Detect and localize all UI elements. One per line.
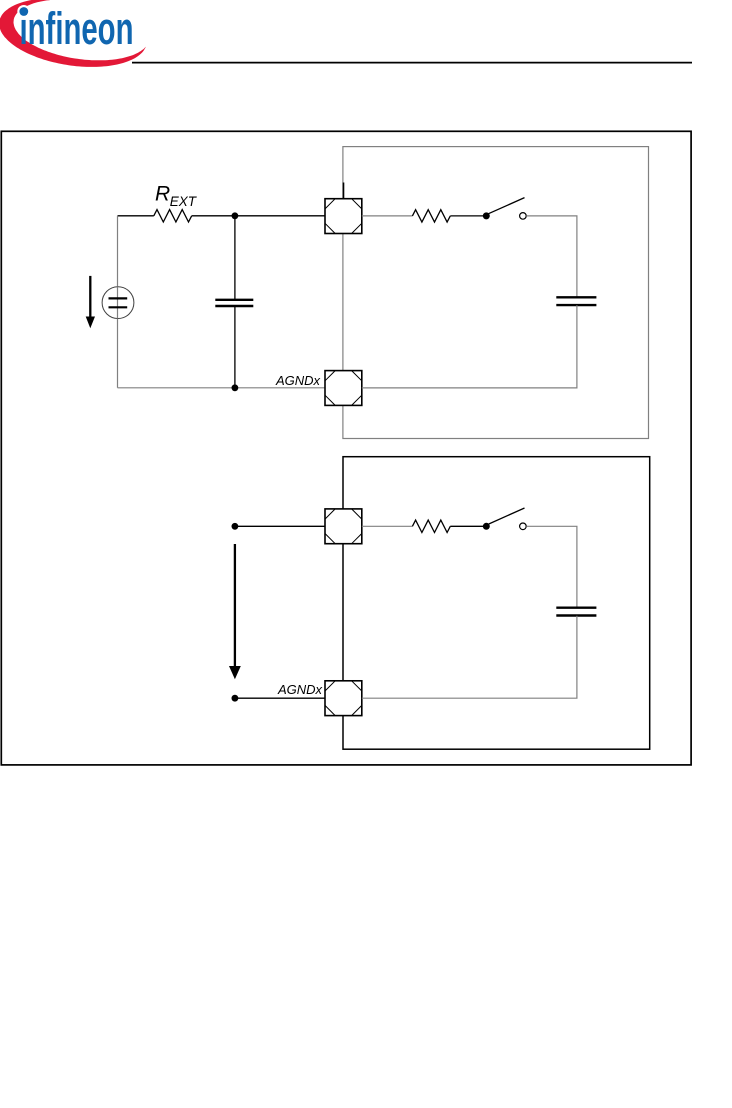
infineon logo swoosh [0, 0, 146, 67]
capacitor CEXT [215, 299, 253, 301]
resistor REXT [154, 210, 192, 222]
arrow: current direction 2 [234, 544, 236, 668]
node: dot top 2 [232, 523, 239, 530]
header rule [132, 62, 692, 64]
current source I1 [102, 287, 134, 319]
pad 1 [325, 199, 362, 234]
wire: dot to pad4 [235, 697, 325, 699]
node: junction bottom [232, 384, 239, 391]
figure outer border [1, 131, 691, 765]
chip box 1 (gray) [343, 147, 649, 439]
svg-text:AGNDx: AGNDx [275, 373, 321, 388]
wire: cap2 to bottom rail [362, 616, 577, 699]
wire: C1 top external rail [118, 215, 154, 217]
arrow: current direction 1 [89, 276, 91, 318]
svg-text:AGNDx: AGNDx [277, 682, 323, 697]
switch 2 [483, 523, 490, 530]
wire: C1 bottom external rail [118, 387, 326, 389]
node: junction top [232, 212, 239, 219]
pad 4 AGNDx [325, 681, 362, 716]
wire: resistor to switch 1 [450, 215, 486, 217]
switch 1 [483, 212, 490, 219]
infineon logo i-dot ball [17, 5, 30, 18]
pad 2 AGNDx [325, 371, 362, 406]
wire: switch to cap 1 [526, 216, 577, 297]
wire: cap1 to bottom rail [362, 305, 577, 388]
chip box 2 (black) [343, 457, 650, 750]
node: dot bottom 2 [232, 695, 239, 702]
wire: dot to pad3 [235, 525, 325, 527]
svg-text:EXT: EXT [170, 194, 198, 209]
wire: resistor to switch 2 [450, 525, 486, 527]
wire: junction vertical [234, 216, 236, 299]
wire: pad3 to internal resistor 2 [362, 525, 413, 527]
svg-text:R: R [155, 182, 170, 205]
wire: pad1 to internal resistor [362, 215, 413, 217]
pin stub above pad1 [343, 183, 345, 200]
resistor internal 2 [412, 520, 450, 532]
wire: switch to cap 2 [526, 526, 577, 607]
capacitor internal 1 [556, 296, 596, 298]
pad 3 [325, 509, 362, 544]
wire: resistor to pad1 [192, 215, 325, 217]
svg-text:ınfineon: ınfineon [20, 3, 134, 54]
capacitor internal 2 [556, 607, 596, 609]
wire: C1 left vertical [117, 216, 119, 388]
resistor internal 1 [412, 210, 450, 222]
